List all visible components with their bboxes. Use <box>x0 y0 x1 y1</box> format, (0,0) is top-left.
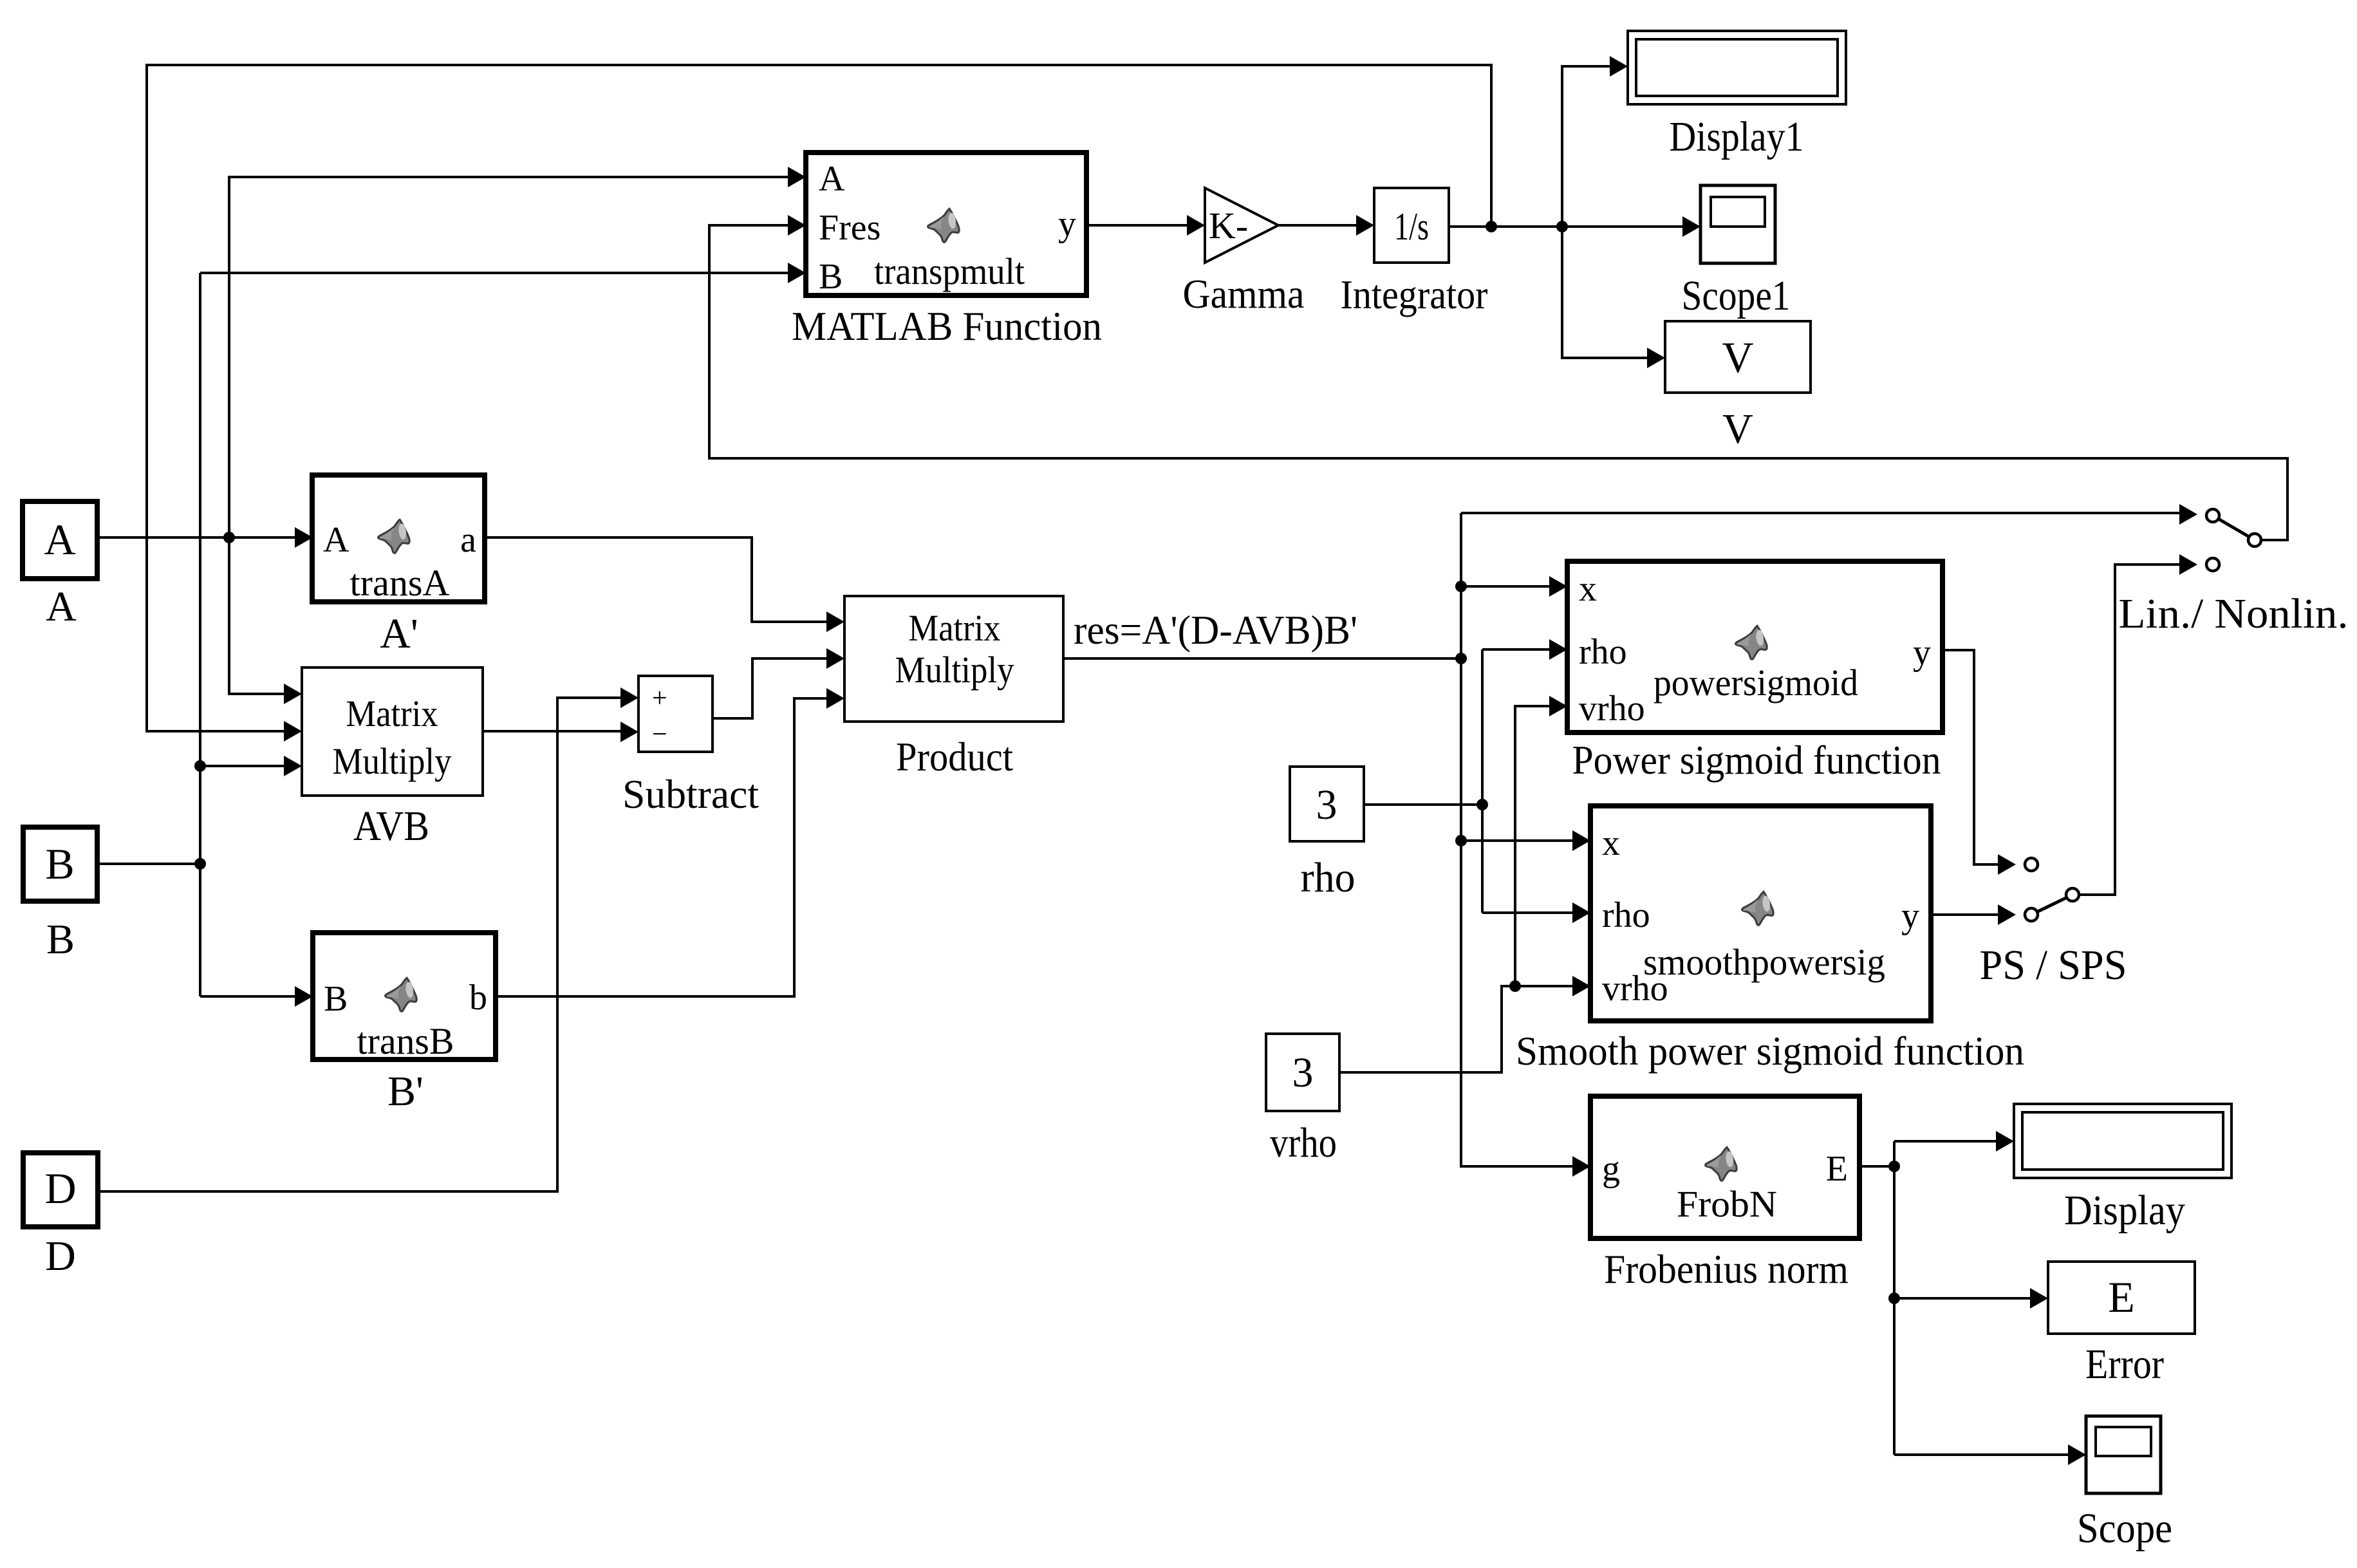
arrowhead into Lin switch in1 <box>2179 504 2197 525</box>
svg-text:D: D <box>44 1164 76 1213</box>
junction node x smoothpowersig <box>1455 835 1467 846</box>
wire powersigmoid y -> PS/SPS switch in1 <box>1942 650 1998 864</box>
matlab icon (powersigmoid) <box>1736 626 1767 659</box>
svg-text:3: 3 <box>1292 1049 1314 1096</box>
svg-text:Fres: Fres <box>819 208 880 248</box>
MATLAB Fcn block powersigmoid <box>1567 561 1942 733</box>
junction node x powersigmoid <box>1455 581 1467 592</box>
Lin/Nonlin switch node in1 <box>2206 509 2219 522</box>
wire branch down to V <box>1562 227 1648 358</box>
Matrix Multiply block (AVB) <box>302 667 483 796</box>
PS/SPS switch node in1 <box>2025 858 2038 871</box>
junction node rho <box>1477 799 1488 810</box>
wire rho vertical bus <box>1481 649 1484 913</box>
wire res -> smoothpowersig x <box>1461 839 1573 842</box>
arrowhead into powersigmoid x <box>1549 576 1567 597</box>
svg-text:rho: rho <box>1602 895 1650 935</box>
MATLAB Fcn block FrobN <box>1590 1096 1859 1238</box>
wire Integrator -> Scope1 <box>1449 225 1683 228</box>
matlab icon (transB) <box>386 978 417 1011</box>
Scope1 block <box>1700 185 1775 263</box>
wire D -> Subtract plus <box>98 698 621 1191</box>
Lin/Nonlin switch node out <box>2248 534 2261 546</box>
matlab icon (smoothpowersig) <box>1742 891 1774 925</box>
Scope screen <box>2096 1427 2151 1456</box>
wire Subtract -> Product in2 <box>713 658 827 718</box>
svg-text:Scope1: Scope1 <box>1682 272 1791 319</box>
wire rho out <box>1364 803 1482 806</box>
svg-text:MATLAB Function: MATLAB Function <box>792 303 1102 349</box>
wire res -> Lin switch in1 <box>1461 512 2180 514</box>
arrowhead into smoothpowersig x <box>1572 830 1590 851</box>
source block A <box>23 501 97 579</box>
svg-text:A: A <box>323 520 349 560</box>
Scope block <box>2086 1416 2161 1493</box>
constant block rho (3) <box>1290 767 1364 841</box>
arrowhead into powersigmoid vrho <box>1549 696 1567 716</box>
arrowhead into transA <box>295 527 313 548</box>
svg-text:V: V <box>1722 333 1753 382</box>
svg-text:Display1: Display1 <box>1670 113 1804 160</box>
arrowhead into transpmult B <box>788 263 806 283</box>
junction node E out <box>1888 1161 1900 1172</box>
E tag block (Error) <box>2048 1262 2195 1334</box>
Display1 block outer <box>1628 31 1846 104</box>
svg-text:V: V <box>1722 406 1753 453</box>
arrowhead into Display <box>1996 1131 2014 1152</box>
svg-text:E: E <box>1826 1149 1848 1189</box>
wire B out <box>97 863 200 865</box>
wire rho -> smoothpowersig rho <box>1482 911 1573 914</box>
wire branch up to Display1 <box>1562 66 1610 227</box>
arrowhead into Scope1 <box>1682 216 1700 237</box>
wire E -> Scope <box>1894 1453 2069 1456</box>
svg-text:y: y <box>1901 896 1919 936</box>
svg-text:A: A <box>44 515 75 564</box>
wire transA -> Product in1 <box>485 537 827 622</box>
wire switch out -> transpmult Fres feedback <box>709 225 2287 540</box>
Integrator block (1/s) <box>1374 188 1449 263</box>
svg-text:Subtract: Subtract <box>622 771 759 817</box>
arrowhead into V <box>1647 348 1665 368</box>
svg-text:vrho: vrho <box>1270 1119 1337 1166</box>
svg-text:x: x <box>1602 823 1620 863</box>
wire AVB -> Subtract minus <box>483 730 621 733</box>
Lin/Nonlin switch node in2 <box>2206 558 2219 571</box>
source block B <box>23 827 97 901</box>
arrowhead into Gamma <box>1187 215 1205 236</box>
arrowhead into transpmult A <box>788 167 806 187</box>
svg-text:PS / SPS: PS / SPS <box>1980 942 2127 989</box>
svg-text:rho: rho <box>1579 632 1627 672</box>
svg-text:Multiply: Multiply <box>895 649 1014 691</box>
svg-text:−: − <box>652 720 667 749</box>
junction node on A wire <box>223 532 235 543</box>
PS/SPS switch node out <box>2066 888 2079 901</box>
svg-text:A: A <box>819 159 845 199</box>
svg-text:A: A <box>46 583 77 630</box>
svg-text:b: b <box>469 978 487 1018</box>
svg-text:K-: K- <box>1209 205 1248 247</box>
arrowhead into Error <box>2030 1288 2048 1309</box>
matlab icon (FrobN) <box>1706 1147 1737 1181</box>
junction node vrho <box>1509 980 1521 992</box>
svg-text:powersigmoid: powersigmoid <box>1654 662 1858 704</box>
svg-text:AVB: AVB <box>353 803 429 850</box>
Subtract block <box>638 676 713 752</box>
svg-text:Display: Display <box>2064 1187 2185 1234</box>
arrowhead into smoothpowersig rho <box>1572 902 1590 923</box>
constant block vrho (3) <box>1266 1034 1339 1111</box>
junction node B to AVB <box>194 760 206 772</box>
svg-text:D: D <box>45 1233 76 1280</box>
svg-text:B': B' <box>387 1068 424 1115</box>
svg-text:A': A' <box>380 610 418 657</box>
svg-text:Product: Product <box>896 734 1013 779</box>
svg-text:Matrix: Matrix <box>346 693 438 734</box>
svg-text:Multiply: Multiply <box>333 740 452 782</box>
wire PS/SPS out -> Lin switch in2 <box>2080 565 2180 895</box>
svg-text:transpmult: transpmult <box>874 250 1025 292</box>
arrowhead into Integrator <box>1356 215 1374 236</box>
wire Gamma -> Integrator <box>1278 224 1357 227</box>
arrowhead into PS/SPS in1 <box>1998 854 2016 875</box>
MATLAB Fcn block transA <box>312 475 485 602</box>
svg-text:B: B <box>819 257 843 297</box>
svg-text:transA: transA <box>350 562 450 604</box>
MATLAB Function block (transpmult) U1 <box>806 153 1086 295</box>
wire B -> AVB in3 <box>200 765 284 767</box>
matlab icon (transpmult) <box>928 209 960 242</box>
svg-text:FrobN: FrobN <box>1677 1183 1777 1225</box>
arrowhead into Product in1 <box>826 611 844 632</box>
arrowhead into transpmult Fres <box>788 215 806 236</box>
wire E vertical bus <box>1893 1141 1896 1455</box>
MATLAB Fcn block smoothpowersig <box>1590 806 1931 1021</box>
junction node E to Error <box>1888 1293 1900 1304</box>
gain Gamma triangle <box>1205 188 1278 263</box>
svg-text:1/s: 1/s <box>1394 205 1429 248</box>
svg-text:rho: rho <box>1301 854 1356 901</box>
arrowhead into Subtract minus <box>620 722 638 742</box>
arrowhead into Display1 <box>1610 56 1628 77</box>
svg-text:Frobenius norm: Frobenius norm <box>1604 1246 1849 1292</box>
wire rho -> powersigmoid rho <box>1482 648 1550 651</box>
Display inner frame <box>2022 1112 2223 1170</box>
PS/SPS switch lever <box>2031 895 2073 915</box>
svg-text:Lin./ Nonlin.: Lin./ Nonlin. <box>2119 590 2349 637</box>
svg-text:smoothpowersig: smoothpowersig <box>1643 941 1885 983</box>
svg-text:vrho: vrho <box>1579 689 1645 729</box>
junction node Display1/V branch <box>1556 221 1568 232</box>
wire A -> transA <box>97 536 295 539</box>
svg-text:+: + <box>652 684 667 713</box>
arrowhead into FrobN g <box>1572 1156 1590 1177</box>
svg-text:3: 3 <box>1316 781 1337 828</box>
wire A -> transpmult A <box>229 177 788 537</box>
svg-text:a: a <box>460 520 476 560</box>
junction node at integrator output <box>1486 221 1497 232</box>
wire A -> AVB in1 <box>229 537 284 694</box>
arrowhead into Product in3 <box>826 688 844 709</box>
Display block outer <box>2014 1104 2231 1178</box>
arrowhead into Subtract plus <box>620 687 638 708</box>
arrowhead into AVB in1 <box>284 684 302 704</box>
arrowhead into AVB in3 <box>284 756 302 776</box>
junction node on B wire <box>194 858 206 870</box>
svg-text:Error: Error <box>2085 1341 2164 1388</box>
wire res: Product output <box>1063 657 1461 660</box>
svg-text:y: y <box>1058 204 1076 244</box>
svg-text:B: B <box>324 979 348 1019</box>
Scope1 screen <box>1711 197 1765 227</box>
Lin/Nonlin switch lever <box>2213 516 2255 540</box>
arrowhead into Lin switch in2 <box>2179 554 2197 575</box>
matlab icon (transA) <box>378 519 410 553</box>
PS/SPS switch node in2 <box>2025 908 2038 921</box>
wire B -> transB <box>200 995 295 998</box>
svg-text:y: y <box>1913 633 1931 673</box>
wire res -> powersigmoid x <box>1461 585 1550 588</box>
Matrix Multiply block (Product) <box>844 596 1063 722</box>
wire res bus vertical -> FrobN g <box>1461 513 1573 1166</box>
svg-text:Matrix: Matrix <box>909 607 1001 649</box>
wire B vertical bus <box>199 273 201 996</box>
svg-text:res=A'(D-AVB)B': res=A'(D-AVB)B' <box>1074 607 1357 653</box>
arrowhead into Scope <box>2068 1444 2086 1465</box>
svg-text:x: x <box>1579 569 1597 609</box>
wire transpmult y -> Gamma <box>1086 224 1188 227</box>
junction node res/product <box>1455 653 1467 664</box>
svg-text:Smooth power sigmoid function: Smooth power sigmoid function <box>1516 1028 2024 1074</box>
svg-text:E: E <box>2108 1273 2135 1321</box>
arrowhead into powersigmoid rho <box>1549 639 1567 660</box>
wire transB -> Product in3 <box>496 698 827 996</box>
V tag block <box>1665 321 1811 393</box>
arrowhead into AVB in2 <box>284 721 302 742</box>
arrowhead into transB <box>295 986 313 1007</box>
wire B -> transpmult B <box>200 272 788 274</box>
svg-text:Gamma: Gamma <box>1183 271 1305 317</box>
wire vrho -> powersigmoid vrho <box>1515 706 1550 986</box>
arrowhead into Product in2 <box>826 648 844 669</box>
svg-text:B: B <box>45 839 74 888</box>
wire vrho -> smoothpowersig vrho <box>1339 986 1573 1072</box>
MATLAB Fcn block transB <box>313 933 496 1059</box>
svg-text:Scope: Scope <box>2077 1505 2172 1552</box>
wire feedback V: integrator -> Matrix Multiply AVB in2 <box>147 65 1491 731</box>
svg-text:Power sigmoid function: Power sigmoid function <box>1572 737 1941 783</box>
wire smoothpowersig y -> PS/SPS switch in2 <box>1931 913 1998 916</box>
source block D <box>23 1153 98 1227</box>
svg-text:Integrator: Integrator <box>1341 272 1488 317</box>
wire E -> Display <box>1894 1140 1997 1143</box>
wire FrobN E out <box>1859 1165 1894 1168</box>
Display1 inner frame <box>1636 39 1838 96</box>
arrowhead into smoothpowersig vrho <box>1572 976 1590 996</box>
svg-text:transB: transB <box>357 1020 454 1062</box>
svg-text:B: B <box>46 916 75 963</box>
arrowhead into PS/SPS in2 <box>1998 904 2016 925</box>
wire E -> Error <box>1894 1297 2031 1300</box>
svg-text:g: g <box>1602 1149 1620 1189</box>
